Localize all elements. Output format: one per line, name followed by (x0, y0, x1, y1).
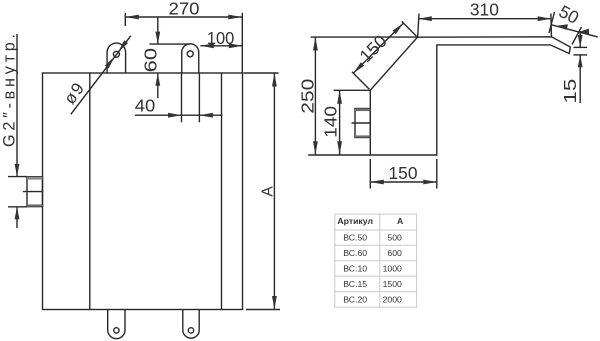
svg-text:15: 15 (560, 79, 580, 104)
svg-text:310: 310 (470, 0, 499, 20)
svg-text:150: 150 (355, 31, 391, 67)
svg-text:А: А (260, 186, 277, 197)
svg-text:1500: 1500 (383, 279, 402, 289)
svg-text:2000: 2000 (383, 294, 402, 304)
svg-text:100: 100 (207, 28, 235, 48)
svg-text:150: 150 (389, 163, 418, 183)
svg-text:Артикул: Артикул (337, 216, 373, 226)
svg-text:50: 50 (556, 1, 583, 28)
svg-text:600: 600 (387, 248, 402, 258)
svg-text:ВС.15: ВС.15 (343, 279, 367, 289)
svg-text:270: 270 (169, 0, 200, 19)
svg-text:G2″-внутр.: G2″-внутр. (1, 34, 19, 147)
svg-text:500: 500 (387, 233, 402, 243)
svg-text:А: А (397, 216, 404, 226)
svg-text:ВС.20: ВС.20 (343, 294, 367, 304)
svg-text:1000: 1000 (383, 263, 402, 273)
svg-text:140: 140 (320, 106, 340, 138)
svg-text:ВС.50: ВС.50 (343, 233, 367, 243)
svg-text:ВС.60: ВС.60 (343, 248, 367, 258)
svg-text:ВС.10: ВС.10 (343, 263, 367, 273)
svg-text:60: 60 (140, 48, 160, 73)
svg-text:40: 40 (135, 95, 156, 115)
svg-text:250: 250 (297, 79, 317, 114)
svg-text:ø9: ø9 (60, 79, 88, 108)
